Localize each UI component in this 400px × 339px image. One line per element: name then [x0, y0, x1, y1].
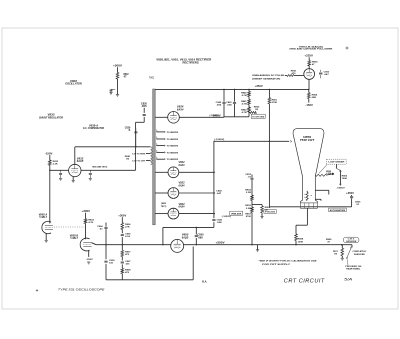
ground below C831	[59, 178, 62, 180]
wire V824 plate out	[179, 116, 224, 118]
wire C800 branch	[195, 227, 197, 244]
svg-text:4.7M: 4.7M	[242, 94, 247, 97]
junction C841 top	[234, 89, 235, 90]
label CRT CIRCUIT	[284, 279, 325, 285]
svg-text:*SEE IF WORTH FOR DC CALIBRATI: *SEE IF WORTH FOR DC CALIBRATION USE	[259, 261, 318, 263]
svg-text:R839 (SEE TEXT): R839 (SEE TEXT)	[92, 167, 107, 169]
potentiometer knob	[332, 173, 334, 175]
wire core to V822-1	[155, 171, 168, 173]
svg-text:4.7K: 4.7K	[88, 221, 93, 224]
svg-text:T801: T801	[149, 76, 155, 80]
tube V832	[69, 164, 81, 176]
label V824 6AX4	[177, 106, 184, 112]
label R853	[245, 205, 251, 210]
label C893	[324, 71, 330, 76]
label R852	[245, 189, 251, 194]
label TYPE footer	[58, 288, 105, 292]
label box FOCUS	[264, 210, 276, 214]
capacitor C802	[110, 89, 116, 92]
wire core to V824	[155, 116, 168, 118]
label V893 header	[289, 45, 333, 50]
CRT deflection lead 2	[315, 199, 321, 201]
ground below C836	[89, 178, 92, 180]
label C807	[125, 261, 131, 266]
svg-text:+350V: +350V	[216, 241, 226, 244]
ground below V832	[72, 180, 75, 182]
svg-text:C843: C843	[217, 219, 223, 222]
svg-text:+300V: +300V	[118, 215, 127, 217]
schematic title line 2	[183, 61, 199, 65]
label box TO CRT GRID	[251, 114, 265, 118]
label box ASTIGMATISM	[329, 208, 347, 212]
wire V832 plate to primary	[75, 146, 150, 148]
capacitor C820	[143, 114, 146, 115]
svg-text:-150V: -150V	[45, 152, 53, 155]
label V805B	[70, 234, 79, 240]
svg-text:C841: C841	[226, 101, 232, 104]
junction R868 bottom	[295, 244, 296, 245]
svg-text:C829: C829	[125, 128, 131, 130]
label -1050V on V824 wire	[210, 115, 219, 117]
svg-text:6-50: 6-50	[125, 236, 131, 238]
label C800	[198, 235, 205, 240]
svg-text:2.2M: 2.2M	[246, 208, 251, 210]
wire -1050V sub-bus	[224, 116, 249, 118]
heater tap left 1	[132, 153, 150, 155]
wire left branch down	[105, 245, 107, 280]
label V800	[182, 234, 189, 240]
heater winding tap 1	[156, 130, 178, 134]
svg-text:R842: R842	[241, 108, 247, 111]
label SEE TEXT	[161, 203, 167, 208]
label +350V above bus	[255, 86, 264, 88]
label (-1050V) corner	[214, 139, 224, 141]
resistor chain R840-R842 branch	[248, 89, 251, 96]
capacitor C866	[350, 197, 353, 198]
tube V822 (1)	[168, 167, 179, 178]
junction divider at plate bus	[251, 244, 252, 245]
svg-text:R894: R894	[312, 93, 318, 96]
wire ground stub	[257, 245, 259, 250]
label V822 (2)	[179, 182, 186, 188]
label V832 6AU5 at tube	[77, 157, 84, 163]
label C805	[109, 260, 115, 265]
svg-text:100K: 100K	[298, 241, 304, 243]
heater winding tap 2	[156, 137, 178, 141]
registration cross top right	[345, 46, 348, 49]
label R841	[241, 100, 247, 106]
svg-text:-150V: -150V	[305, 104, 313, 107]
svg-text:T54P CRT: T54P CRT	[300, 138, 315, 142]
svg-text:1M: 1M	[255, 109, 258, 111]
svg-text:TO HEATERS: TO HEATERS	[167, 151, 179, 154]
svg-text:½ 6BL7: ½ 6BL7	[39, 215, 48, 219]
resistor R855	[316, 174, 327, 176]
label box CRT CATHODE	[343, 237, 359, 243]
resistor R892	[308, 61, 311, 66]
svg-text:+225V: +225V	[304, 55, 313, 58]
capacitor C852	[251, 178, 254, 179]
wire V800 plate bus	[183, 244, 352, 246]
wire V893 cathode	[308, 79, 309, 90]
arrow into CRT grid	[290, 140, 292, 142]
wire -1050V to CRT grid	[214, 140, 289, 142]
wire +225V stem	[308, 57, 310, 68]
svg-text:6AX4: 6AX4	[177, 108, 184, 111]
junction C840 top	[223, 89, 224, 90]
svg-text:4.7M: 4.7M	[242, 102, 247, 105]
capacitor C807	[121, 262, 124, 263]
ground below R854	[260, 217, 263, 219]
wire corner to C800	[163, 227, 214, 244]
resistor R802	[116, 73, 119, 80]
resistor R851	[268, 89, 271, 206]
capacitor C800	[195, 236, 198, 237]
label R803	[88, 220, 94, 225]
tube V893	[304, 69, 315, 80]
svg-text:SHUNT REGULATOR: SHUNT REGULATOR	[39, 116, 63, 119]
label R839 SEE TEXT	[92, 167, 107, 169]
capacitor C831	[59, 170, 62, 178]
svg-text:27K: 27K	[125, 226, 130, 228]
resistor R840	[248, 100, 251, 105]
tube V822 (3)	[168, 208, 179, 219]
svg-text:2.2K: 2.2K	[53, 164, 58, 166]
switch lever	[346, 247, 352, 259]
resistor R868	[295, 225, 298, 245]
label V805A	[39, 213, 48, 219]
resistor R891	[287, 75, 294, 77]
label V859 CRT	[300, 135, 315, 142]
capacitor C840 branch	[222, 89, 225, 117]
tube V805B	[80, 238, 91, 251]
svg-text:6AQ5: 6AQ5	[182, 236, 189, 239]
resistor R841	[248, 97, 251, 117]
label R807	[125, 251, 131, 256]
label HEATER	[333, 251, 339, 256]
svg-text:TO HEATERS: TO HEATERS	[167, 131, 179, 134]
svg-text:4.7M: 4.7M	[242, 111, 247, 114]
registration cross bottom left	[36, 289, 38, 291]
label C806	[125, 233, 131, 238]
junction R806 chain	[122, 244, 123, 245]
svg-text:C804: C804	[97, 225, 103, 228]
wire to R854	[252, 204, 262, 206]
svg-text:1M: 1M	[126, 159, 129, 161]
capacitor C843	[212, 220, 215, 221]
svg-text:6AX4: 6AX4	[179, 164, 186, 167]
label -150V (V832)	[45, 152, 53, 155]
svg-text:GRID AND CATHODE FOLLOWER: GRID AND CATHODE FOLLOWER	[289, 48, 333, 51]
resistor R894	[308, 89, 311, 102]
tube V800	[171, 239, 184, 252]
svg-text:CATHODE: CATHODE	[346, 240, 357, 243]
svg-text:R854: R854	[265, 206, 271, 209]
svg-text:-1050V: -1050V	[212, 116, 222, 118]
junction R851 top	[269, 89, 270, 90]
resistor R806	[121, 223, 124, 230]
svg-text:UNBLANK: UNBLANK	[231, 212, 242, 215]
svg-text:5/A: 5/A	[344, 278, 353, 282]
pot adjust arrow	[340, 170, 342, 186]
label R868	[298, 239, 304, 244]
label C843	[217, 219, 223, 225]
svg-text:(-1050V): (-1050V)	[214, 139, 224, 141]
svg-text:-1050V: -1050V	[336, 188, 345, 190]
heater tap left 2	[132, 160, 150, 162]
resistor R807	[121, 250, 124, 256]
svg-text:470K: 470K	[246, 215, 252, 218]
svg-text:(-1050V): (-1050V)	[222, 216, 231, 218]
wire -1050V riser	[213, 141, 215, 228]
wire +300V stem	[117, 67, 119, 94]
svg-text:6AX4: 6AX4	[179, 206, 186, 209]
svg-text:+300V: +300V	[113, 64, 122, 67]
svg-text:68K: 68K	[312, 97, 317, 99]
tube V805A	[42, 221, 53, 233]
svg-text:+350V: +350V	[346, 193, 355, 195]
transformer core	[153, 89, 156, 225]
resistor R854	[261, 205, 264, 217]
svg-text:C800: C800	[198, 235, 205, 237]
junction grid line crossing	[269, 141, 270, 142]
label box dashed	[327, 159, 347, 164]
tube V824	[168, 112, 180, 124]
wire V805B cathode	[88, 250, 90, 257]
svg-text:LOW ORDER: LOW ORDER	[328, 162, 345, 164]
heater winding tap 3	[156, 143, 178, 147]
svg-text:TO HEATERS: TO HEATERS	[167, 145, 179, 148]
wire C820 to feedback	[136, 122, 145, 170]
capacitor C804 upper	[104, 223, 107, 245]
svg-text:FOR CRT SUPPLY: FOR CRT SUPPLY	[262, 264, 291, 266]
resistor R850	[249, 111, 256, 114]
label -1050V at stack	[222, 216, 231, 218]
wire CRT base bus	[269, 206, 351, 208]
wire divider chain	[251, 175, 253, 245]
label C804	[97, 225, 103, 231]
label R802	[124, 74, 130, 79]
label R835	[53, 161, 59, 166]
svg-text:6AU5: 6AU5	[77, 160, 84, 163]
wire V832 plate	[74, 147, 76, 165]
wire grid to V832	[50, 169, 69, 171]
ground oscillator stem	[116, 95, 119, 97]
heater winding tap 5	[156, 157, 178, 161]
label -1050V	[212, 116, 222, 118]
label C842	[216, 190, 222, 196]
svg-text:V859: V859	[303, 135, 312, 139]
label C840	[216, 101, 222, 107]
capacitor C841 branch	[233, 89, 236, 116]
resistor R835	[49, 160, 52, 165]
svg-text:6.3V TO HTRS: 6.3V TO HTRS	[132, 153, 146, 155]
capacitor C820 label	[141, 104, 148, 109]
capacitor C806	[121, 235, 124, 236]
svg-text:C842: C842	[216, 190, 222, 193]
wire +350V stem	[351, 195, 353, 207]
label T801	[149, 76, 155, 80]
svg-text:FOCUS: FOCUS	[265, 212, 276, 214]
label C852	[245, 174, 252, 179]
junction C800 top	[196, 227, 197, 228]
label PROVIDED ON REAR PANEL	[345, 266, 362, 270]
wire box stem	[337, 164, 341, 170]
label C866	[355, 201, 361, 206]
wire HV bus (top)	[155, 88, 309, 90]
resistor R803	[84, 219, 87, 224]
svg-text:D.C. COMPENSATOR: D.C. COMPENSATOR	[83, 127, 104, 130]
label C829	[125, 128, 131, 133]
wire core to V822-2	[155, 192, 168, 194]
wire C820 branch	[143, 108, 145, 123]
svg-text:C893: C893	[324, 71, 330, 73]
wire focus stub	[306, 208, 308, 225]
junction R840 top	[248, 89, 249, 90]
label R841 heater elevation	[125, 155, 131, 161]
junction cathode tap	[341, 244, 342, 245]
label box UNBLANKING	[230, 211, 243, 215]
svg-text:UNBLANKING DC PULSE: UNBLANKING DC PULSE	[252, 74, 285, 77]
ground at plate bus	[256, 250, 259, 252]
wire bottom return	[106, 247, 193, 280]
label R857	[245, 214, 251, 219]
label R892	[312, 61, 318, 66]
svg-text:(SWEEP GENERATOR): (SWEEP GENERATOR)	[252, 78, 280, 81]
label R842	[241, 108, 247, 114]
label R869	[326, 239, 332, 243]
wire -150V drop	[49, 155, 51, 222]
svg-text:-150V: -150V	[86, 259, 94, 261]
svg-text:TEXT): TEXT)	[161, 206, 167, 208]
CRT envelope	[293, 129, 324, 203]
label R851	[272, 99, 278, 104]
label +300V (V805B)	[82, 210, 91, 213]
label R850	[254, 107, 260, 112]
CRT base	[301, 203, 318, 208]
capacitor C805	[104, 261, 107, 262]
label R894	[312, 93, 318, 99]
label -150V (V893)	[305, 104, 313, 107]
junction C800 bottom	[196, 244, 197, 245]
label R806	[125, 224, 131, 229]
svg-text:R841: R841	[241, 100, 247, 103]
junction left cap	[105, 244, 106, 245]
label B.A.	[202, 281, 207, 284]
svg-text:ASTIGMATISM: ASTIGMATISM	[330, 209, 346, 212]
svg-text:2.2M: 2.2M	[246, 192, 251, 194]
label V839A DC COMPENSATOR	[83, 124, 104, 130]
svg-text:C840: C840	[216, 101, 222, 104]
svg-text:+350V: +350V	[255, 86, 264, 88]
wire bus corner down	[351, 245, 353, 248]
wire V822-1 out	[179, 172, 215, 173]
junction V832 grid	[49, 170, 50, 171]
svg-text:270K: 270K	[272, 102, 278, 104]
wire R855 to pot	[327, 173, 332, 176]
resistor R852	[251, 195, 254, 200]
wire unblanking stub	[285, 75, 287, 77]
label -150V (V805B)	[86, 259, 94, 261]
wire focus step	[296, 224, 307, 226]
ground below C802	[109, 93, 112, 95]
svg-text:OSCILLATOR: OSCILLATOR	[65, 82, 82, 86]
gang dashed link	[54, 226, 84, 228]
svg-text:6AX4: 6AX4	[179, 184, 186, 187]
svg-text:RECTIFIERS: RECTIFIERS	[183, 61, 199, 65]
label V822 (3)	[179, 203, 186, 209]
svg-text:TO CRT GRID: TO CRT GRID	[252, 116, 265, 118]
wire core to V822-3	[155, 213, 168, 215]
svg-text:TO HEATERS: TO HEATERS	[167, 158, 179, 161]
capacitor C836	[89, 170, 92, 178]
heater winding tap 4	[156, 150, 178, 154]
CRT gun structure	[304, 191, 312, 201]
svg-text:CRT CIRCUIT: CRT CIRCUIT	[284, 279, 325, 285]
wire into V805A	[49, 222, 51, 224]
junction C800 grid corner	[162, 244, 163, 245]
svg-text:+300V: +300V	[82, 210, 91, 213]
primary winding arcs	[151, 147, 153, 165]
wire V822-2 out	[179, 192, 215, 193]
svg-text:½ 6BL7: ½ 6BL7	[70, 236, 79, 240]
label +350V (plate bus)	[216, 241, 226, 244]
svg-text:1M: 1M	[334, 253, 337, 255]
note asterisk line 2	[262, 264, 291, 266]
CRT deflection lead 1	[315, 190, 329, 194]
wire V805B plate out	[92, 243, 97, 245]
svg-text:TYPE 531 OSCILLOSCOPE: TYPE 531 OSCILLOSCOPE	[58, 288, 105, 292]
label C841	[226, 101, 232, 107]
label R854	[265, 206, 271, 212]
label R840	[241, 91, 247, 97]
wire +300V chain	[121, 217, 123, 280]
label V832 SHUNT REGULATOR	[39, 113, 63, 119]
leader box to grid	[319, 165, 327, 174]
schematic title line 1	[156, 58, 212, 62]
resistor R871	[341, 245, 344, 259]
svg-text:TO HEATERS: TO HEATERS	[167, 138, 179, 141]
wire V832 output	[81, 169, 136, 171]
wire grid bus	[96, 244, 171, 246]
svg-text:REAR PANEL: REAR PANEL	[346, 268, 361, 271]
node +300V oscillator supply	[113, 64, 122, 67]
svg-text:(SEE: (SEE	[161, 203, 167, 205]
label R808	[125, 270, 131, 275]
capacitor C829	[134, 128, 137, 147]
label -1050V (intensity)	[336, 188, 345, 190]
label R891	[291, 70, 297, 74]
svg-text:2.2M: 2.2M	[326, 173, 331, 175]
label COMPLETELY SHIELDED	[352, 251, 367, 256]
resistor R853	[251, 207, 254, 212]
label V802 OSCILLATOR	[65, 79, 82, 86]
label +350V (base)	[346, 193, 355, 195]
label unblanking note	[252, 74, 285, 80]
capacitor C893	[319, 70, 322, 79]
junction C829/plate wire	[135, 146, 136, 147]
svg-text:100K: 100K	[342, 178, 348, 180]
label sheet number	[344, 278, 353, 282]
ground below V805B	[87, 262, 90, 264]
wire R891 to grid	[294, 75, 304, 77]
label +225V	[304, 55, 313, 58]
svg-text:COMPLETELY: COMPLETELY	[352, 251, 367, 253]
note asterisk line 1	[259, 261, 318, 263]
svg-text:SHIELDED: SHIELDED	[354, 254, 366, 256]
label R855	[326, 171, 332, 175]
label R856 INTENSITY	[342, 176, 348, 181]
